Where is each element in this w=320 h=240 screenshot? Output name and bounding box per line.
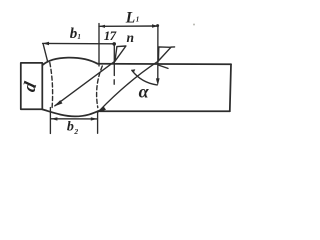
svg-text:α: α: [139, 82, 150, 102]
svg-text:L: L: [125, 9, 135, 26]
arrowhead L1 right (corner blob): [152, 24, 158, 28]
svg-text:d: d: [19, 79, 41, 94]
extension line x=157.9 with arrow to alpha: [157, 26, 159, 80]
arrowhead arc left end: [131, 69, 135, 72]
tool edge line 1 (diagonal through left triangle): [55, 61, 115, 106]
dimension line b2: [51, 118, 98, 120]
b2 right extension line: [97, 111, 99, 133]
left shaft end cap rectangle: [21, 63, 43, 109]
svg-text:17: 17: [104, 28, 117, 43]
tool symbol triangle 2: [158, 47, 171, 61]
b2 left extension line: [49, 108, 51, 134]
svg-text:1: 1: [136, 15, 140, 23]
hidden line: left dashed arc inside bulge: [50, 63, 53, 109]
svg-text:n: n: [127, 30, 135, 45]
arrowhead b1 left: [43, 42, 49, 45]
shaft bottom edge: [100, 110, 230, 112]
flash bulge top outline: [42, 58, 97, 66]
tool edge line 2 (diagonal through right triangle): [98, 61, 158, 112]
b1 left slanted extension: [43, 44, 47, 61]
hidden line: right dashed arc inside bulge: [97, 66, 103, 108]
dimension line b1 and 17: [43, 42, 115, 44]
arrowhead b2 right: [91, 117, 97, 120]
svg-text:1: 1: [77, 33, 81, 41]
extension dash x=114.2 lower: [113, 80, 115, 84]
junction dot at 17 dimension: [112, 42, 116, 46]
shaft top edge: [98, 63, 232, 66]
extension line x=114.3: [113, 43, 115, 75]
arrowhead L1 left: [99, 25, 105, 28]
arrowhead diagonal 1 tip: [54, 100, 63, 106]
arrowhead b2 left: [51, 117, 58, 120]
svg-text:b: b: [67, 119, 74, 134]
flash bulge bottom outline: [42, 109, 99, 116]
arrowhead diagonal 2 tip: [98, 106, 106, 112]
arrowhead down on extension x=157.9: [156, 78, 160, 86]
extension line x=99: [98, 24, 100, 66]
faint speck top right: [193, 24, 195, 26]
triangle 2 top tail: [171, 46, 175, 48]
shaft right edge: [230, 64, 231, 111]
short stroke right of vertical at weld: [159, 65, 169, 68]
dimension line L1: [99, 25, 158, 27]
tool symbol triangle 1: [115, 46, 126, 61]
angle alpha arc: [132, 70, 157, 85]
svg-text:2: 2: [73, 127, 78, 136]
